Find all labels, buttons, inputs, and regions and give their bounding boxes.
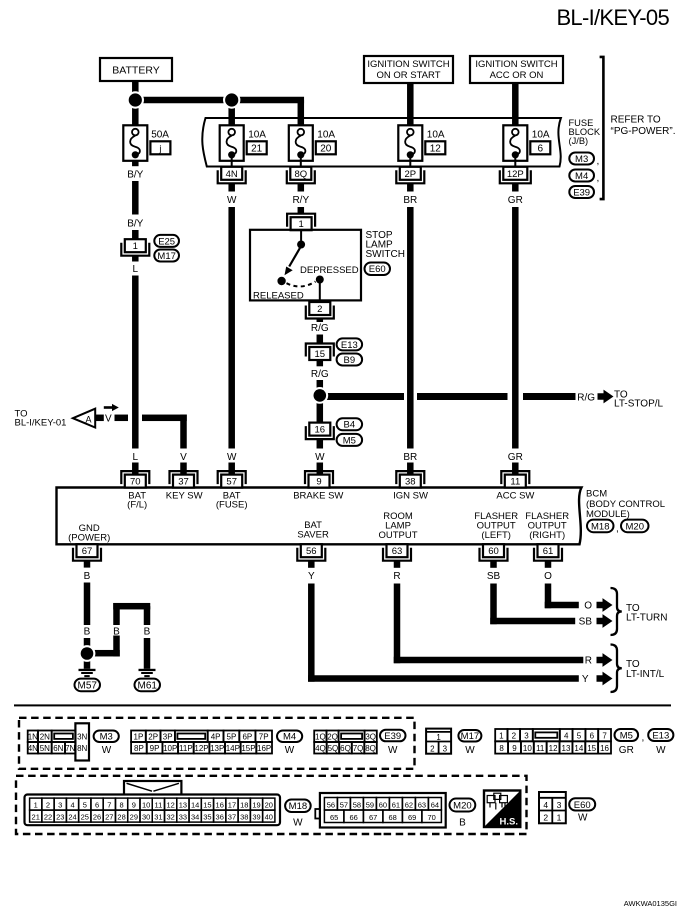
- wire BR stub 2: [407, 463, 414, 475]
- svg-text:6: 6: [590, 732, 595, 741]
- connector grid M3 row2: [28, 742, 76, 754]
- svg-text:V: V: [105, 414, 112, 425]
- svg-text:64: 64: [431, 800, 439, 809]
- svg-text:M17: M17: [157, 251, 175, 262]
- svg-text:R/G: R/G: [311, 369, 329, 380]
- svg-text:11: 11: [536, 744, 545, 753]
- wire B loop v1b: [113, 636, 120, 657]
- svg-text:8: 8: [499, 744, 504, 753]
- fusible link letter j box: [150, 141, 170, 154]
- connector ref B4 (B4ref): [337, 418, 363, 430]
- svg-text:R: R: [585, 656, 592, 667]
- svg-text:61: 61: [392, 800, 400, 809]
- svg-text:23: 23: [56, 813, 64, 822]
- svg-text:MODULE): MODULE): [586, 509, 630, 520]
- svg-text:1: 1: [34, 801, 38, 810]
- svg-text:BR: BR: [403, 452, 417, 463]
- wire GR stub: [512, 183, 519, 191]
- svg-text:4P: 4P: [211, 732, 221, 741]
- wire fuse link x410.3: [409, 155, 411, 167]
- svg-text:29: 29: [130, 813, 138, 822]
- wire Y stub: [308, 561, 315, 568]
- fuse FL 50A j: [123, 125, 147, 161]
- wire V wire down: [180, 415, 187, 449]
- junction rail-f21: [223, 91, 240, 108]
- svg-text:W: W: [465, 745, 475, 756]
- svg-text:7Q: 7Q: [353, 744, 364, 753]
- svg-text:,: ,: [597, 173, 600, 184]
- node ROOM LAMP OUTPUT: [378, 511, 417, 541]
- svg-text:22: 22: [44, 813, 52, 822]
- svg-text:(J/B): (J/B): [569, 136, 589, 146]
- svg-text:10A: 10A: [532, 130, 550, 141]
- connector ref M61 (M61ref): [135, 679, 161, 692]
- wire O wire: [545, 584, 552, 609]
- connector pin 16 (B4-M5 pin16): [306, 423, 334, 440]
- svg-text:4: 4: [543, 800, 548, 810]
- fuse fuse F20: [289, 125, 313, 161]
- connector grid M4 row1: [131, 731, 272, 743]
- connector ref M4 (M4grid): [277, 731, 302, 743]
- connector pin 67 (BCM pin 67): [73, 544, 101, 561]
- svg-text:13P: 13P: [210, 744, 224, 753]
- svg-text:10: 10: [523, 744, 532, 753]
- connector grid M17: [426, 729, 451, 754]
- svg-text:4: 4: [564, 732, 569, 741]
- svg-text:70: 70: [130, 477, 141, 488]
- svg-text:BATTERY: BATTERY: [112, 65, 159, 77]
- wire GR stub 2: [512, 463, 519, 475]
- wire O run: [545, 602, 579, 609]
- svg-text:RELEASED: RELEASED: [253, 290, 304, 301]
- svg-text:18: 18: [240, 801, 248, 810]
- svg-text:33: 33: [179, 813, 187, 822]
- svg-text:OUTPUT: OUTPUT: [378, 530, 417, 541]
- svg-text:O: O: [544, 571, 552, 582]
- svg-text:M20: M20: [453, 800, 471, 811]
- svg-text:E60: E60: [369, 264, 386, 275]
- svg-text:9: 9: [132, 801, 136, 810]
- svg-text:M3: M3: [100, 732, 113, 743]
- fuse number box 21: [247, 141, 267, 154]
- svg-text:28: 28: [117, 813, 125, 822]
- svg-text:2: 2: [46, 801, 50, 810]
- junction rail-batt: [127, 91, 144, 108]
- svg-text:2: 2: [543, 812, 548, 822]
- junction depressed contact: [316, 276, 324, 284]
- svg-text:BL-I/KEY-05: BL-I/KEY-05: [556, 5, 669, 30]
- connector pin 1 (stop lamp pin1): [287, 214, 315, 231]
- svg-text:67: 67: [82, 546, 93, 557]
- svg-text:38: 38: [405, 477, 416, 488]
- connector ref M57 (M57ref): [75, 679, 101, 692]
- svg-text:E39: E39: [384, 731, 401, 742]
- wire B loop v2a: [144, 606, 151, 625]
- svg-text:66: 66: [349, 813, 357, 822]
- svg-text:GR: GR: [508, 452, 523, 463]
- svg-text:E25: E25: [158, 236, 175, 247]
- separator line: [14, 704, 671, 706]
- svg-text:16: 16: [315, 425, 326, 436]
- svg-text:8Q: 8Q: [365, 744, 376, 753]
- svg-text:12P: 12P: [507, 169, 524, 180]
- wire RY stub: [298, 207, 305, 214]
- connector pin 61 (BCM pin 61): [534, 544, 562, 561]
- svg-text:60: 60: [379, 800, 387, 809]
- fuse fuse F21: [220, 125, 244, 161]
- svg-text:2: 2: [512, 732, 517, 741]
- fuse fuse F12: [398, 125, 422, 161]
- svg-text:B: B: [84, 627, 91, 638]
- svg-text:LT-INT/L: LT-INT/L: [626, 669, 665, 680]
- svg-text:(RIGHT): (RIGHT): [529, 530, 565, 541]
- highlighted column 3N/8N: [75, 723, 89, 760]
- svg-text:REFER TO: REFER TO: [611, 115, 661, 126]
- svg-text:15: 15: [203, 801, 211, 810]
- keyway M5: [535, 732, 557, 737]
- node TO LT-STOP/L: [614, 389, 664, 409]
- svg-text:W: W: [293, 818, 303, 829]
- svg-text:16P: 16P: [257, 744, 271, 753]
- wire BY stub: [132, 161, 139, 166]
- svg-text:ACC SW: ACC SW: [496, 490, 534, 501]
- svg-text:58: 58: [353, 800, 361, 809]
- svg-text:11P: 11P: [179, 744, 193, 753]
- node BAT SAVER: [297, 520, 329, 540]
- svg-text:60: 60: [488, 546, 499, 557]
- wire fuse link x300.8: [300, 155, 302, 167]
- node BAT (FUSE): [216, 490, 248, 510]
- svg-text:3: 3: [557, 800, 562, 810]
- svg-text:50A: 50A: [151, 130, 169, 141]
- svg-text:R/G: R/G: [311, 323, 329, 334]
- svg-text:O: O: [584, 601, 592, 612]
- connector grid M5 row2: [495, 741, 611, 753]
- svg-text:25: 25: [81, 813, 89, 822]
- svg-text:IGN SW: IGN SW: [393, 490, 428, 501]
- connector ref E60 (E60ref): [365, 263, 391, 276]
- node FUSE BLOCK (J/B) label: [569, 118, 601, 146]
- wire bus rail: [132, 97, 304, 104]
- wire L wire: [132, 276, 139, 449]
- wire B loop v1a: [113, 603, 120, 625]
- connector pin 57 (BCM pin 57): [218, 471, 246, 488]
- svg-text:4N: 4N: [226, 169, 238, 180]
- connector grid M4 row2: [131, 742, 272, 754]
- svg-text:59: 59: [366, 800, 374, 809]
- connector pin 9 (BCM pin 9): [305, 471, 333, 488]
- wire BR wire: [407, 207, 414, 449]
- svg-text:1N: 1N: [28, 732, 38, 741]
- svg-text:31: 31: [154, 813, 162, 822]
- svg-text:10A: 10A: [427, 130, 445, 141]
- svg-text:(LEFT): (LEFT): [481, 530, 511, 541]
- svg-text:10P: 10P: [163, 744, 177, 753]
- svg-text:57: 57: [226, 477, 237, 488]
- junction RG junction: [311, 387, 328, 404]
- node BRAKE SW: [293, 490, 343, 501]
- wire O stub: [545, 561, 552, 568]
- connector pin 8Q (8Q): [287, 167, 315, 184]
- released contact: [277, 277, 285, 285]
- ignition switch ACC/ON: [470, 56, 563, 83]
- connector ref M20 (M20ref): [621, 520, 649, 533]
- BCM body control module box: [57, 488, 582, 545]
- svg-text:,: ,: [642, 733, 645, 744]
- svg-text:2N: 2N: [40, 732, 50, 741]
- svg-text:BL-I/KEY-01: BL-I/KEY-01: [15, 418, 67, 429]
- svg-text:19: 19: [252, 801, 260, 810]
- svg-text:3P: 3P: [163, 732, 173, 741]
- svg-text:V: V: [180, 452, 187, 463]
- wire B loop h: [87, 650, 120, 657]
- wire W stub 4: [317, 463, 324, 475]
- svg-text:37: 37: [228, 813, 236, 822]
- svg-text:62: 62: [405, 800, 413, 809]
- node KEY SW: [166, 490, 203, 501]
- svg-text:9: 9: [316, 477, 321, 488]
- wire W wire to 16: [317, 402, 324, 423]
- svg-text:E13: E13: [341, 340, 358, 351]
- node TO LT-INT/L: [626, 659, 665, 680]
- svg-text:Y: Y: [582, 674, 589, 685]
- svg-text:37: 37: [178, 477, 189, 488]
- wire switch input: [300, 230, 302, 241]
- connector ref E60 (E60grid): [569, 798, 595, 811]
- wire f21 drop: [228, 100, 235, 126]
- svg-text:2: 2: [317, 304, 322, 315]
- wire f20 drop: [298, 100, 305, 126]
- bracket refer-to: [600, 57, 604, 199]
- svg-text:12: 12: [430, 143, 442, 154]
- svg-text:15P: 15P: [241, 744, 255, 753]
- connector ref M17 (M17grid): [458, 730, 481, 742]
- svg-text:W: W: [656, 745, 666, 756]
- svg-text:B/Y: B/Y: [127, 170, 143, 181]
- svg-text:SB: SB: [487, 571, 501, 582]
- svg-text:7: 7: [602, 732, 607, 741]
- ground GND M57: [79, 669, 96, 677]
- svg-text:8P: 8P: [134, 744, 144, 753]
- svg-text:17: 17: [228, 801, 236, 810]
- fuse number box 6: [530, 141, 550, 154]
- wire B stub: [84, 561, 91, 568]
- node BCM (BODY CONTROL MODULE): [586, 488, 665, 520]
- wire L stub: [132, 256, 139, 262]
- node GND (POWER): [68, 523, 110, 543]
- junction B junction: [79, 645, 96, 662]
- svg-text:56: 56: [306, 546, 317, 557]
- battery B1: [100, 58, 172, 81]
- svg-text:3N: 3N: [77, 732, 87, 741]
- wire Y wire: [308, 584, 315, 682]
- wire R run: [394, 657, 584, 664]
- node FLASHER OUTPUT RIGHT: [525, 511, 569, 541]
- svg-text:2: 2: [430, 745, 435, 754]
- svg-text:M4: M4: [575, 171, 588, 182]
- svg-text:2Q: 2Q: [327, 732, 338, 741]
- svg-text:5P: 5P: [227, 732, 237, 741]
- svg-text:15: 15: [587, 744, 596, 753]
- dashed box connector group 1: [19, 718, 415, 769]
- svg-text:M4: M4: [283, 732, 296, 743]
- fuse block J/B outline: [202, 118, 561, 167]
- connector grid M3 row1: [28, 731, 76, 743]
- svg-text:SAVER: SAVER: [297, 529, 329, 540]
- arrow to LT-TURN SB: [597, 614, 613, 628]
- svg-text:14: 14: [191, 801, 199, 810]
- wire BR stub: [407, 183, 414, 191]
- svg-text:B: B: [113, 627, 120, 638]
- svg-text:12P: 12P: [194, 744, 208, 753]
- svg-text:W: W: [315, 452, 325, 463]
- switch S1 stop lamp switch box: [250, 230, 361, 301]
- svg-text:9P: 9P: [150, 744, 160, 753]
- node TO LT-TURN: [626, 603, 667, 623]
- node ACC SW: [496, 490, 534, 501]
- connector ref M5 (M5ref): [337, 434, 363, 446]
- svg-text:13: 13: [562, 744, 571, 753]
- connector grid M20 row1: [324, 798, 441, 811]
- connector grid M18 row1: [30, 798, 275, 810]
- svg-text:M20: M20: [626, 521, 644, 532]
- svg-text:3Q: 3Q: [365, 732, 376, 741]
- svg-text:10A: 10A: [248, 130, 266, 141]
- svg-text:2P: 2P: [404, 169, 416, 180]
- svg-text:j: j: [158, 143, 161, 153]
- connector ref E39 (fuseblock-E39): [569, 186, 594, 198]
- connector ref M3 (M3grid): [94, 731, 119, 743]
- wire SB stub: [490, 561, 497, 568]
- svg-text:8Q: 8Q: [294, 169, 307, 180]
- wire R/Y stub: [298, 183, 305, 191]
- arrow to LT-INT/L R: [597, 653, 613, 667]
- svg-text:40: 40: [265, 813, 273, 822]
- svg-text:6P: 6P: [242, 732, 252, 741]
- connector ref B9 (B9ref): [337, 354, 363, 366]
- svg-text:E60: E60: [574, 800, 591, 811]
- wire fuse link x231.7: [231, 155, 233, 167]
- svg-text:13: 13: [179, 801, 187, 810]
- svg-text:1P: 1P: [134, 732, 144, 741]
- svg-text:R/G: R/G: [577, 393, 595, 404]
- arrow A to BL-I/KEY-01: [73, 409, 95, 428]
- wire V wire a: [115, 415, 129, 422]
- svg-text:4Q: 4Q: [315, 744, 326, 753]
- connector ref E39 (E39grid): [380, 730, 406, 742]
- svg-text:7N: 7N: [65, 744, 75, 753]
- svg-text:70: 70: [427, 813, 435, 822]
- svg-text:W: W: [578, 813, 588, 824]
- connector pin 2P (2P): [396, 167, 424, 184]
- wire B wire: [84, 583, 91, 626]
- wire RG wire: [317, 335, 324, 344]
- junction stop lamp common: [297, 241, 305, 249]
- svg-text:M17: M17: [461, 731, 479, 742]
- svg-text:W: W: [388, 745, 398, 756]
- connector ref M3 (fuseblock-M3): [569, 153, 594, 165]
- connector pin 60 (BCM pin 60): [480, 544, 508, 561]
- svg-text:2P: 2P: [148, 732, 158, 741]
- svg-text:E13: E13: [652, 730, 669, 741]
- wire switch output: [319, 281, 321, 302]
- connector grid M20 row2: [324, 810, 441, 823]
- svg-text:36: 36: [216, 813, 224, 822]
- keyway M3: [54, 734, 73, 739]
- arrow to LT-TURN O: [597, 598, 613, 612]
- svg-text:26: 26: [93, 813, 101, 822]
- svg-text:6Q: 6Q: [340, 744, 351, 753]
- svg-text:56: 56: [327, 800, 335, 809]
- wire V stub 2: [180, 463, 187, 475]
- svg-text:34: 34: [191, 813, 199, 822]
- wire Y run: [308, 675, 579, 682]
- svg-text:12: 12: [166, 801, 174, 810]
- connector grid E39 row1: [314, 731, 377, 743]
- svg-text:61: 61: [543, 546, 554, 557]
- svg-text:63: 63: [392, 546, 403, 557]
- svg-text:IGNITION SWITCH: IGNITION SWITCH: [475, 59, 557, 70]
- svg-text:5N: 5N: [40, 744, 50, 753]
- svg-text:16: 16: [600, 744, 609, 753]
- svg-text:5: 5: [577, 732, 582, 741]
- wire W stub 2: [228, 463, 235, 475]
- svg-text:GR: GR: [619, 745, 634, 756]
- node STOP LAMP SWITCH label: [366, 230, 405, 260]
- wire battery stub: [132, 81, 139, 100]
- wire GR wire: [512, 207, 519, 449]
- connector ref M5 (M5grid): [615, 729, 639, 741]
- svg-text:M18: M18: [591, 521, 609, 532]
- wire V wire b: [142, 415, 187, 422]
- connector pin 38 (BCM pin 38): [396, 471, 424, 488]
- svg-text:M5: M5: [620, 730, 633, 741]
- svg-text:32: 32: [166, 813, 174, 822]
- connector M20 housing: [315, 793, 445, 828]
- svg-text:5: 5: [83, 801, 87, 810]
- svg-text:(F/L): (F/L): [127, 500, 147, 511]
- svg-text:E39: E39: [573, 187, 590, 198]
- svg-text:DEPRESSED: DEPRESSED: [300, 265, 359, 276]
- svg-text:,: ,: [616, 524, 619, 535]
- svg-text:7P: 7P: [259, 732, 269, 741]
- connector ref E25 (E25): [154, 235, 179, 247]
- keyway M4: [177, 734, 205, 739]
- wire RG h3: [523, 393, 576, 400]
- svg-text:M61: M61: [138, 680, 158, 691]
- svg-text:6: 6: [95, 801, 99, 810]
- wire W wire: [228, 207, 235, 449]
- svg-text:27: 27: [105, 813, 113, 822]
- wire V stub: [95, 415, 104, 422]
- svg-text:10: 10: [142, 801, 150, 810]
- svg-text:21: 21: [32, 813, 40, 822]
- svg-text:3: 3: [58, 801, 62, 810]
- svg-text:SB: SB: [579, 617, 593, 628]
- svg-text:38: 38: [240, 813, 248, 822]
- ignition switch ON/START: [364, 56, 453, 83]
- wire RG h2: [417, 393, 508, 400]
- wire RG h1: [316, 393, 404, 400]
- node FLASHER OUTPUT LEFT: [474, 511, 518, 541]
- svg-text:“PG-POWER”.: “PG-POWER”.: [611, 126, 676, 137]
- svg-text:B/Y: B/Y: [127, 218, 143, 229]
- connector pin 12P (12P): [500, 167, 531, 184]
- svg-text:B9: B9: [344, 355, 356, 366]
- connector pin 70 (BCM pin 70): [121, 471, 149, 488]
- connector pin 11 (BCM pin 11): [501, 471, 529, 488]
- fuse number box 12: [425, 141, 445, 154]
